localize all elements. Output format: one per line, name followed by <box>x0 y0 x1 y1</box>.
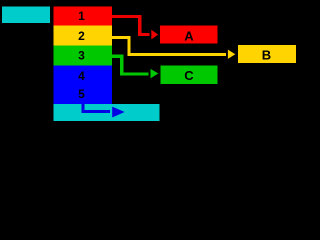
blue arrow: box 5 into bottom cyan box <box>83 104 125 118</box>
svg-text:A: A <box>184 29 194 44</box>
box 2 (yellow) <box>54 26 113 46</box>
yellow arrow: box 2 to box B <box>112 38 235 59</box>
box 4 and box 5 (blue block) <box>54 66 113 104</box>
svg-text:4: 4 <box>78 69 85 83</box>
box B (yellow) <box>238 45 296 63</box>
svg-text:1: 1 <box>78 9 85 23</box>
svg-text:2: 2 <box>78 29 85 43</box>
green arrow: box 3 to box C <box>112 56 158 78</box>
svg-text:B: B <box>262 48 271 63</box>
svg-text:C: C <box>184 68 194 83</box>
box 1 (red) <box>54 7 113 26</box>
box C (green) <box>161 65 218 84</box>
left cyan box <box>2 7 50 24</box>
svg-text:3: 3 <box>78 49 85 63</box>
box 3 (green) <box>54 46 113 66</box>
svg-text:5: 5 <box>78 87 85 101</box>
box A (red) <box>160 26 217 44</box>
red arrow: box 1 to box A <box>112 17 158 40</box>
bottom cyan box <box>54 104 160 121</box>
